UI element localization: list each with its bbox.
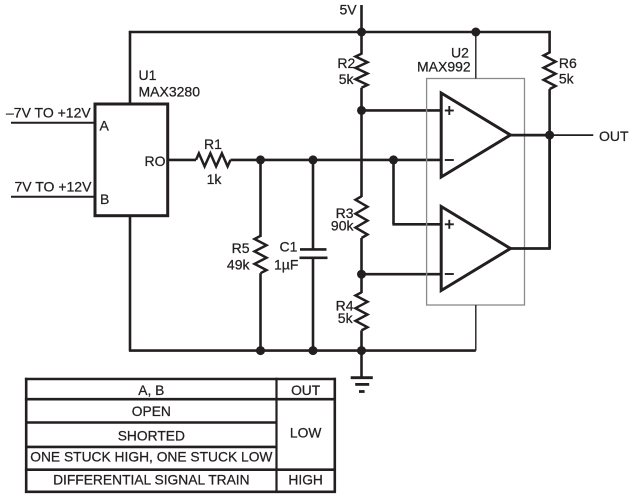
- wire: C1 bottom: [312, 258, 315, 351]
- node: R1/R5 junction: [256, 155, 265, 164]
- wire: U1 top pin: [129, 31, 132, 106]
- resistor R6: [544, 52, 556, 89]
- svg-text:A: A: [100, 118, 110, 134]
- svg-text:90k: 90k: [331, 218, 355, 234]
- wire: ground stub: [360, 351, 363, 378]
- svg-text:RO: RO: [145, 153, 166, 169]
- wire: R6 bottom to OUT node: [548, 89, 551, 135]
- svg-text:SHORTED: SHORTED: [118, 429, 185, 444]
- svg-text:7V TO +12V: 7V TO +12V: [15, 178, 93, 194]
- wire: bottom ground rail: [129, 349, 476, 352]
- wire: branch down to U2B noninverting input: [392, 160, 395, 224]
- capacitor C1: [300, 249, 328, 257]
- svg-text:49k: 49k: [227, 257, 251, 273]
- table: row separator SHORTED/STUCK: [26, 446, 276, 449]
- wire: rail corner down to R6: [548, 31, 551, 54]
- wire: OUT node down to U2B output: [548, 135, 551, 248]
- resistor R1: [196, 153, 231, 166]
- svg-text:R1: R1: [204, 136, 222, 152]
- svg-text:R5: R5: [232, 240, 250, 256]
- wire: R3 bottom to R4 top: [360, 238, 363, 293]
- wire: R4 bottom to ground rail: [360, 330, 363, 350]
- R4 value label: [336, 297, 354, 326]
- resistor R2: [356, 54, 368, 88]
- C1 value label: [274, 238, 298, 272]
- table: header separator: [25, 398, 336, 401]
- node: R2/R3 tap: [357, 106, 366, 115]
- node: OUT junction: [545, 131, 554, 140]
- svg-text:R2: R2: [337, 55, 355, 71]
- svg-text:B: B: [100, 191, 109, 207]
- R3 value label: [331, 205, 355, 234]
- input B wire: [11, 196, 95, 198]
- op-amp U2A comparator: [441, 93, 510, 177]
- input A wire: [11, 122, 95, 124]
- wire: R1 to comparator inverting input: [231, 159, 443, 162]
- svg-text:U1: U1: [139, 67, 157, 83]
- svg-text:5k: 5k: [338, 310, 354, 326]
- wire: tap to U2B inverting input: [362, 273, 443, 276]
- wire: R2 bottom to divider node: [360, 88, 363, 197]
- op-amp U2B comparator: [441, 207, 510, 291]
- table: truth table border: [25, 378, 336, 493]
- svg-text:1µF: 1µF: [274, 257, 298, 273]
- table: row separator OPEN/SHORTED: [26, 421, 276, 424]
- svg-text:ONE STUCK HIGH, ONE STUCK LOW: ONE STUCK HIGH, ONE STUCK LOW: [30, 449, 272, 464]
- node: C1 ground junction: [309, 346, 318, 355]
- R5 value label: [227, 240, 251, 273]
- node: U2B branch junction: [389, 155, 398, 164]
- R6 value label: [559, 55, 577, 87]
- R2 value label: [337, 55, 355, 87]
- ground: [351, 378, 373, 392]
- svg-text:A, B: A, B: [138, 383, 164, 398]
- svg-text:MAX992: MAX992: [417, 58, 471, 74]
- svg-text:5V: 5V: [340, 2, 358, 18]
- node: R5 ground junction: [256, 346, 265, 355]
- R1 value label: [204, 136, 222, 187]
- svg-text:HIGH: HIGH: [288, 473, 323, 488]
- resistor R3: [356, 196, 368, 238]
- node: U2 VCC rail junction: [471, 28, 480, 37]
- svg-text:DIFFERENTIAL SIGNAL TRAIN: DIFFERENTIAL SIGNAL TRAIN: [53, 472, 250, 487]
- wire: 5V supply stub: [360, 5, 363, 55]
- label U1 MAX3280: [139, 67, 201, 100]
- wire: U1 bottom pin to ground rail: [129, 216, 132, 351]
- svg-text:LOW: LOW: [290, 425, 321, 440]
- table: last row separator: [25, 468, 336, 471]
- svg-text:OUT: OUT: [291, 383, 321, 398]
- wire: OUT lead: [554, 134, 593, 136]
- label U2 MAX992: [417, 45, 471, 75]
- wire: U2A output: [511, 134, 550, 137]
- svg-text:MAX3280: MAX3280: [139, 84, 201, 100]
- wire: RO output to R1: [168, 159, 196, 162]
- svg-text:5k: 5k: [339, 71, 355, 87]
- wire: U2 GND pin to rail: [475, 305, 477, 351]
- wire: U2 VCC pin to rail: [475, 32, 477, 79]
- svg-text:–7V TO +12V: –7V TO +12V: [6, 104, 91, 120]
- svg-text:5k: 5k: [559, 71, 575, 87]
- IC U2 MAX992 box: [427, 79, 525, 306]
- wire: R5 top: [259, 160, 262, 237]
- wire: top supply rail: [129, 31, 551, 34]
- wire: R5 bottom: [259, 273, 262, 350]
- IC U1 MAX3280 box: [95, 104, 168, 216]
- resistor R5: [255, 236, 267, 273]
- svg-text:OUT: OUT: [599, 128, 629, 144]
- svg-text:R6: R6: [559, 55, 577, 71]
- node: 5V rail junction: [357, 28, 366, 37]
- wire: tap to U2A noninverting input: [362, 109, 443, 112]
- wire: U2B output: [511, 247, 551, 250]
- node: R3/R4 tap: [357, 270, 366, 279]
- resistor R4: [356, 292, 368, 330]
- svg-text:1k: 1k: [207, 171, 223, 187]
- svg-text:C1: C1: [280, 238, 298, 254]
- wire: C1 top: [312, 160, 315, 249]
- node: C1 junction: [309, 155, 318, 164]
- svg-text:OPEN: OPEN: [132, 404, 171, 419]
- node: divider ground junction: [357, 346, 366, 355]
